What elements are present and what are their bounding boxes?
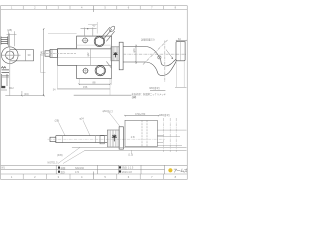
svg-text:NAK160: NAK160 bbox=[75, 167, 85, 170]
svg-text:(34): (34) bbox=[132, 97, 136, 99]
main bar bbox=[56, 136, 108, 143]
dim bracket under (28) bbox=[7, 31, 17, 46]
bottom dim line 88 bbox=[79, 84, 111, 85]
dim text (28) bbox=[7, 28, 12, 32]
phi dim vertical bbox=[135, 45, 136, 65]
pin hole bbox=[158, 56, 161, 59]
svg-text:(28): (28) bbox=[7, 28, 12, 32]
hook upper edge bbox=[146, 47, 176, 67]
top serrated stack bbox=[1, 37, 8, 43]
cell1 marker row1 bbox=[58, 167, 60, 169]
leader texts bbox=[48, 162, 59, 165]
right horizontals bbox=[157, 130, 186, 145]
svg-text:980(参考): 980(参考) bbox=[149, 86, 160, 90]
rod foot dark bbox=[1, 86, 5, 88]
svg-text:CH2+780: CH2+780 bbox=[135, 113, 146, 116]
svg-text:φ34: φ34 bbox=[133, 48, 136, 53]
flange bbox=[119, 127, 123, 149]
line under foot bbox=[1, 89, 7, 91]
boss crosshair bbox=[1, 45, 21, 65]
extension lines down from body bbox=[58, 66, 112, 96]
bar centerline bbox=[48, 138, 166, 140]
svg-text:(345): (345) bbox=[57, 154, 63, 157]
svg-text:156: 156 bbox=[83, 85, 88, 89]
bar left tip bbox=[50, 137, 56, 141]
svg-text:検図: 検図 bbox=[61, 166, 66, 170]
cell2 marker row2 bbox=[119, 170, 121, 172]
tall dim line (84) bbox=[43, 29, 45, 96]
svg-text:アームズ: アームズ bbox=[173, 168, 187, 173]
svg-text:NOTE1.5: NOTE1.5 bbox=[48, 162, 59, 165]
nozzle extension lines bbox=[88, 22, 98, 34]
long dim line bbox=[74, 94, 132, 96]
svg-text:(2B): (2B) bbox=[55, 120, 60, 123]
bottom zone strip line bbox=[1, 173, 188, 175]
table verticals bbox=[56, 165, 164, 174]
vertical centerline bbox=[164, 41, 166, 83]
arm tiny label bbox=[28, 53, 31, 57]
right edge chamfer diagonal bbox=[106, 61, 111, 68]
top dim bracket bbox=[81, 28, 97, 37]
lower small lines bbox=[2, 76, 9, 78]
clamp arm rectangle bbox=[10, 50, 34, 61]
upper hexagon bbox=[95, 37, 103, 46]
bottom zone dividers bbox=[23, 174, 163, 179]
big box bbox=[125, 120, 157, 146]
angled nozzle bbox=[102, 25, 116, 41]
upper hex bolt circle bbox=[94, 36, 104, 46]
top zone dividers bbox=[23, 6, 163, 10]
84 dim top right bbox=[176, 40, 187, 41]
bottom center mark bbox=[92, 172, 94, 180]
right phantom verticals bbox=[164, 118, 177, 152]
svg-text:980(参考): 980(参考) bbox=[159, 113, 170, 117]
cell1 marker row2 bbox=[58, 171, 60, 173]
bottom dim line 156 bbox=[57, 88, 110, 90]
lower zigzag thread marks bbox=[1, 67, 6, 69]
comb block bbox=[111, 47, 119, 61]
hook end cap bbox=[176, 42, 185, 61]
rod sides bbox=[1, 74, 7, 86]
cap under extension lines bbox=[176, 61, 184, 88]
svg-text:設計: 設計 bbox=[61, 170, 66, 174]
980 dim bbox=[149, 86, 160, 90]
svg-text:(1.5): (1.5) bbox=[128, 153, 133, 156]
svg-text:2.5t: 2.5t bbox=[131, 136, 135, 139]
lower serrated slabs bbox=[2, 70, 10, 73]
lower hex bolt circle bbox=[95, 65, 105, 75]
logo yellow mark bbox=[168, 168, 172, 172]
svg-text:(34): (34) bbox=[24, 92, 29, 96]
inner vertical dim bbox=[90, 49, 92, 65]
left extension line bbox=[48, 33, 77, 35]
internal band lines bbox=[77, 49, 112, 66]
svg-text:174: 174 bbox=[75, 171, 80, 174]
svg-text:φ22: φ22 bbox=[88, 52, 90, 57]
comb dark symbol bbox=[113, 52, 118, 57]
upper small hole bbox=[83, 38, 88, 43]
dim leaders bbox=[58, 147, 85, 163]
comb dark symbol bbox=[112, 135, 117, 142]
table row line 1 bbox=[1, 164, 188, 166]
body outline bbox=[58, 36, 112, 79]
phi60 label + curved leader bbox=[103, 109, 114, 113]
hook lower edge bbox=[146, 61, 176, 76]
arrow leader at throat bbox=[166, 50, 173, 59]
top zone numbers bbox=[11, 5, 177, 9]
collar bbox=[100, 135, 104, 144]
left shaft tip bbox=[45, 51, 50, 56]
long dim lines bbox=[72, 147, 187, 150]
svg-text:尺度 1:1.5: 尺度 1:1.5 bbox=[122, 166, 134, 170]
shaft centerline bbox=[43, 52, 77, 54]
cap under dim line bbox=[175, 86, 187, 88]
svg-text:φ34: φ34 bbox=[80, 118, 85, 121]
cell2 texts bbox=[122, 166, 134, 170]
top dim bbox=[124, 115, 159, 116]
corner text bbox=[1, 167, 5, 170]
shaft bore hidden lines bbox=[58, 49, 112, 57]
svg-text:2013.4.8: 2013.4.8 bbox=[122, 171, 132, 174]
extension vline bbox=[10, 62, 22, 96]
bottom dim line (34) bbox=[5, 95, 43, 97]
tube top/bottom bbox=[123, 47, 146, 63]
label + leader bbox=[55, 120, 60, 123]
flange plate bbox=[119, 42, 123, 70]
tube centerline bbox=[123, 53, 186, 55]
boss 45deg ticks bbox=[6, 52, 13, 59]
box inner text bbox=[131, 136, 135, 139]
boss outer circle bbox=[2, 47, 19, 64]
top annotation text bbox=[141, 38, 155, 42]
top center mark bbox=[92, 6, 94, 12]
box inner verticals bbox=[142, 120, 147, 146]
bar stub right of box bbox=[157, 136, 163, 143]
top zone strip line bbox=[1, 8, 188, 10]
dim step lines bbox=[40, 54, 45, 72]
table row line 2 bbox=[1, 169, 165, 171]
left shaft body bbox=[50, 49, 58, 57]
cell1 texts bbox=[61, 166, 85, 170]
svg-text:φ60(ねじ): φ60(ねじ) bbox=[103, 109, 114, 113]
bar sleeve division lines bbox=[63, 136, 96, 143]
cap inner vline bbox=[179, 42, 181, 61]
arm inner vertical line bbox=[24, 50, 26, 61]
cell2 marker row1 bbox=[119, 166, 121, 168]
frame border bbox=[1, 6, 188, 180]
45 deg centerline bbox=[143, 40, 168, 65]
lower hexagon bbox=[96, 66, 104, 75]
faint internal line bbox=[77, 44, 112, 46]
lower small hole bbox=[83, 68, 88, 73]
stack right guide lines bbox=[8, 34, 9, 47]
logo text bbox=[173, 168, 187, 173]
nozzle angle label bbox=[92, 24, 96, 27]
foot label bbox=[9, 87, 14, 90]
comb block bbox=[107, 130, 119, 147]
bottom zone numbers bbox=[11, 175, 177, 179]
boss inner circle bbox=[6, 51, 14, 59]
svg-text:試験荷重2.5t: 試験荷重2.5t bbox=[141, 38, 155, 42]
annotation line bbox=[132, 92, 167, 96]
shaft rings bbox=[51, 49, 53, 57]
